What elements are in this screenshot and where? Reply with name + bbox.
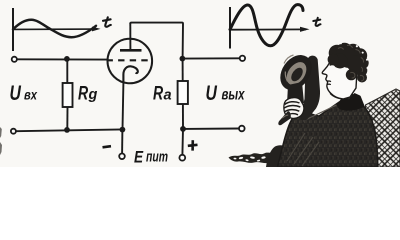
neck shadow xyxy=(330,94,341,99)
wire anode to output terminal xyxy=(182,57,239,59)
hair curl cloud xyxy=(328,43,369,76)
output waveform sine xyxy=(230,5,303,46)
jacket shoulder seam xyxy=(303,104,339,122)
svg-text:R: R xyxy=(153,82,164,104)
ground scribble mound under figure xyxy=(266,145,304,167)
triode plate lead xyxy=(129,23,131,51)
wire cathode to node xyxy=(122,83,125,129)
node cathode junction xyxy=(120,127,126,133)
label t output xyxy=(313,18,320,26)
wire to plus terminal xyxy=(181,129,184,155)
wire input to grid xyxy=(17,58,107,60)
resistor Rg xyxy=(63,59,73,130)
left edge smudge xyxy=(0,127,2,155)
input terminal upper xyxy=(12,57,17,62)
input terminal lower xyxy=(11,129,16,134)
label t input xyxy=(103,17,111,27)
hair curl notches xyxy=(340,41,369,69)
raised arm sleeve xyxy=(300,56,320,121)
output terminal lower xyxy=(239,126,245,132)
svg-text:Е: Е xyxy=(134,148,144,167)
listener jacket body xyxy=(278,94,378,168)
head face xyxy=(322,56,357,99)
horn tip light stripe xyxy=(282,115,288,118)
jacket fold lines xyxy=(287,133,319,166)
label plus xyxy=(188,140,198,150)
horn bell outer xyxy=(274,49,318,96)
cross hatch backdrop right xyxy=(366,89,400,167)
svg-text:U: U xyxy=(206,81,218,105)
label U vyx xyxy=(206,81,246,105)
svg-text:g: g xyxy=(88,87,98,103)
svg-text:вых: вых xyxy=(222,87,246,104)
ground scribble holes xyxy=(233,154,294,162)
horn bell center xyxy=(289,66,305,84)
input waveform sine xyxy=(13,20,96,37)
wire bottom right rail xyxy=(183,128,239,130)
svg-text:а: а xyxy=(164,87,172,103)
triode plate bar xyxy=(120,49,142,52)
svg-text:U: U xyxy=(10,81,22,105)
horn bell rim ring xyxy=(283,58,311,88)
horn mouth tip xyxy=(278,111,291,125)
node anode junction xyxy=(180,56,186,62)
finger lines xyxy=(284,102,300,116)
label U vx xyxy=(10,81,38,105)
supply terminal minus xyxy=(119,154,125,160)
collar xyxy=(336,93,364,111)
svg-text:вх: вх xyxy=(24,86,38,102)
label minus xyxy=(103,146,112,147)
ground scribble under figure xyxy=(229,149,304,163)
hair back curl xyxy=(357,73,367,83)
horn bell highlight xyxy=(284,55,294,82)
eye xyxy=(330,65,337,67)
output waveform axes xyxy=(230,7,310,49)
sideburn curl xyxy=(346,69,357,80)
supply terminal plus xyxy=(179,155,185,161)
label E pit xyxy=(134,148,168,167)
svg-text:R: R xyxy=(78,82,89,104)
node Ra bottom junction xyxy=(180,126,186,132)
triode cathode xyxy=(123,66,137,83)
node Rg bottom junction xyxy=(64,127,70,133)
hand fist xyxy=(284,98,304,119)
svg-text:пит: пит xyxy=(146,150,168,166)
lips mark xyxy=(327,81,331,85)
triode grid dashed line xyxy=(107,59,154,61)
triode tube V1 envelope xyxy=(108,39,153,84)
wire bottom left rail xyxy=(16,129,122,131)
label Rg xyxy=(78,82,98,104)
output terminal upper xyxy=(240,56,245,61)
label Ra xyxy=(153,82,172,104)
input waveform axes xyxy=(13,8,101,51)
wire to minus terminal xyxy=(121,130,123,154)
curl accents xyxy=(338,45,364,81)
horn neck xyxy=(287,82,304,104)
node grid junction xyxy=(64,56,70,62)
wire anode top xyxy=(130,23,183,59)
resistor Ra xyxy=(178,59,188,129)
